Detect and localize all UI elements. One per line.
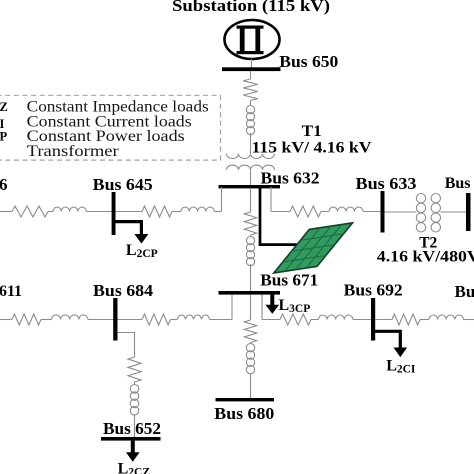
transformer T2 primary winding: [416, 194, 425, 233]
legend glyph I (cut L2CI): [0, 117, 5, 131]
bus 632 bar: [219, 185, 281, 188]
label Bus 646 (cut): [0, 175, 8, 194]
wire L to bus 684: [88, 319, 113, 321]
wire R-L (646-645): [48, 211, 53, 213]
svg-text:6: 6: [0, 175, 8, 194]
label Bus 634 (cut): [445, 175, 474, 192]
wire R-L (645-632): [172, 211, 181, 213]
inductor line 671-692: [319, 315, 353, 320]
inductor line 645-632: [181, 207, 214, 211]
load arrow L2CZ shaft: [131, 441, 135, 454]
inductor line 692-675: [429, 315, 463, 320]
riser to bus 632 left: [221, 187, 223, 212]
label Bus 632: [261, 169, 320, 188]
wire R-L (684-671): [171, 319, 178, 321]
wire L to bus 680: [250, 374, 252, 399]
label Bus 633: [356, 174, 417, 193]
bus 652 bar: [101, 437, 161, 441]
label T2 ratio (cut): [377, 249, 474, 266]
label Bus 684: [93, 281, 154, 300]
PV panel: [274, 223, 353, 273]
wire bus684 to R (684-671): [118, 319, 143, 321]
label L3CP: [279, 297, 311, 315]
svg-text:Z: Z: [0, 100, 8, 114]
resistor line 611-684: [12, 314, 41, 325]
svg-text:L3CP: L3CP: [279, 297, 311, 315]
svg-text:P: P: [0, 130, 8, 144]
label Bus 611 (cut): [0, 283, 22, 300]
load branch 692 (wire): [373, 331, 400, 348]
resistor line 684-671: [142, 314, 171, 325]
resistor feeder R1 (650-T1): [243, 79, 257, 100]
riser bus671 to row2 wire: [261, 295, 263, 320]
wire bus 633 to T2: [385, 211, 417, 213]
svg-text:Bus 632: Bus 632: [261, 169, 320, 188]
svg-text:Bus 645: Bus 645: [93, 175, 153, 194]
wire L to bus 671: [250, 264, 252, 291]
wire R-L (632-671): [250, 235, 252, 237]
source II glyph: [237, 26, 264, 55]
wire R-L (684-652): [134, 382, 136, 385]
wire R-L (692-675): [420, 319, 429, 321]
svg-text:Bus 675: Bus 675: [455, 282, 474, 301]
svg-text:611: 611: [0, 283, 22, 300]
legend text: Constant Power loads: [27, 128, 185, 145]
wire riser to R (632-633): [271, 211, 290, 213]
bus 633 bar: [381, 191, 385, 233]
label Bus 680: [214, 404, 274, 423]
svg-text:Bus 680: Bus 680: [214, 404, 274, 423]
svg-text:Bus 671: Bus 671: [260, 271, 318, 290]
wire source to bus 650: [251, 59, 253, 68]
label T2: [419, 235, 437, 252]
svg-text:Bus 692: Bus 692: [344, 280, 403, 299]
wire R-L (671-692): [311, 319, 319, 321]
wire L to bus 692: [353, 319, 372, 321]
inductor feeder L1 (650-T1): [246, 106, 254, 135]
inductor line 611-684: [52, 315, 88, 320]
label Bus 652: [103, 419, 161, 438]
legend text: Constant Impedance loads: [27, 99, 209, 116]
bus 645 bar: [112, 192, 116, 235]
svg-text:L2CP: L2CP: [126, 242, 158, 260]
label T1 ratio: [252, 139, 372, 156]
wire L to T1: [250, 133, 252, 154]
legend text: Transformer: [27, 143, 120, 160]
riser from bus 632 right: [270, 187, 272, 212]
wire L to riser (645-632): [214, 211, 221, 213]
label L2CP: [126, 242, 158, 260]
inductor line 632-633: [329, 207, 363, 211]
source generator symbol (ellipse): [225, 20, 280, 59]
resistor line 645-632: [142, 206, 172, 217]
wire L to bus 652: [134, 414, 136, 437]
svg-text:115 kV/ 4.16 kV: 115 kV/ 4.16 kV: [252, 139, 372, 156]
resistor line 684-652: [128, 357, 141, 382]
transformer T1 secondary winding: [227, 165, 275, 170]
load branch 645 (wire): [114, 222, 141, 235]
resistor line 632-633: [290, 206, 321, 217]
wire R to L: [250, 101, 252, 107]
wire left edge to R (646-645): [0, 211, 12, 213]
svg-text:Bus 6: Bus 6: [445, 175, 474, 192]
title: Substation (115 kV): [172, 0, 330, 15]
load arrow L2CP head: [134, 234, 148, 244]
svg-text:Bus 650: Bus 650: [279, 52, 338, 71]
load arrow L3CP head: [265, 305, 279, 314]
legend text: Constant Current loads: [27, 113, 192, 130]
bus 634 bar: [466, 193, 471, 231]
bus 650 bar: [222, 67, 281, 71]
bus 680 bar: [216, 398, 275, 401]
svg-text:Bus 684: Bus 684: [93, 281, 154, 300]
wire bus650 to R: [250, 71, 252, 79]
legend glyph P (cut L2CP): [0, 130, 8, 144]
branch wire 684 to 652 (elbow): [118, 333, 135, 358]
resistor line 671-680: [244, 320, 256, 343]
transformer T2 secondary winding: [431, 194, 440, 233]
inductor line 671-680: [246, 344, 254, 374]
load arrow L2CI head: [394, 348, 408, 358]
label Bus 645: [93, 175, 153, 194]
wire bus645 to R (645-632): [116, 211, 143, 213]
svg-text:4.16 kV/480V: 4.16 kV/480V: [377, 249, 474, 266]
wire R-L (611-684): [41, 319, 52, 321]
wire T2 to bus 634: [441, 211, 467, 213]
label L2CI: [386, 358, 416, 376]
wire bus692 to R (692-675): [375, 319, 392, 321]
inductor line 646-645: [53, 207, 86, 211]
wire left edge to R (611-684): [0, 319, 12, 321]
label Bus 650: [279, 52, 338, 71]
legend box (dashed): [0, 95, 221, 160]
load arrow L2CZ head: [126, 452, 140, 462]
resistor line 671-692: [280, 314, 311, 325]
resistor line 646-645: [12, 206, 48, 217]
label Bus 671: [260, 271, 318, 290]
bus 692 bar: [371, 298, 375, 341]
svg-text:Substation (115 kV): Substation (115 kV): [172, 0, 330, 15]
resistor line 692-675: [392, 314, 420, 325]
wire bus671 riser to R (671-692): [262, 319, 280, 321]
load arrow L3CP shaft: [270, 295, 274, 306]
svg-text:L2CZ: L2CZ: [118, 461, 151, 474]
wire L to bus 645: [86, 211, 112, 213]
wire bus671 to R (671-680): [250, 295, 252, 321]
bus 671 bar: [219, 291, 281, 295]
bus 684 bar: [113, 298, 117, 341]
wire L to right edge: [463, 319, 474, 321]
inductor line 684-671: [178, 315, 210, 319]
PV connector (thick wire): [260, 188, 298, 245]
inductor line 684-652: [130, 385, 139, 416]
wire L to bus 633: [363, 211, 381, 213]
wire R-L (671-680): [250, 343, 252, 345]
resistor line 632-671: [244, 212, 256, 235]
wire T1 to bus 632: [250, 170, 252, 186]
label Bus 675 (cut): [455, 282, 474, 301]
svg-text:Transformer: Transformer: [27, 143, 120, 160]
label Bus 692: [344, 280, 403, 299]
legend glyph Z (cut L2CZ): [0, 100, 8, 114]
label L2CZ: [118, 461, 151, 474]
svg-text:L2CI: L2CI: [386, 358, 416, 376]
svg-text:Bus 633: Bus 633: [356, 174, 417, 193]
wire L to riser (684-671): [210, 319, 233, 321]
svg-text:T1: T1: [302, 123, 322, 140]
wire R-L (632-633): [321, 211, 329, 213]
svg-text:Bus 652: Bus 652: [103, 419, 161, 438]
transformer T1 primary winding: [227, 154, 275, 159]
label T1: [302, 123, 322, 140]
riser to bus 671 left: [231, 295, 233, 320]
inductor line 632-671: [246, 237, 254, 266]
wire bus632 to R (632-671): [250, 188, 252, 212]
